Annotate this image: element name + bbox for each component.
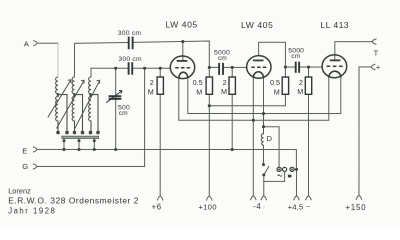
svg-text:+150: +150	[345, 203, 366, 212]
svg-text:2: 2	[150, 78, 154, 87]
terminal G chevron	[33, 164, 37, 169]
wire A to coil1	[37, 42, 58, 44]
svg-text:E: E	[22, 146, 27, 155]
terminal fork +6	[157, 196, 162, 200]
svg-text:+: +	[376, 63, 380, 72]
wire grid1: coil3 top, cap C2, to tube1 grid	[91, 68, 170, 77]
node E bus drop2	[77, 148, 80, 151]
node E bus varcap	[114, 148, 117, 151]
svg-text:M: M	[221, 87, 227, 96]
svg-text:E.R.W.O. 328 Ordensmeister 2: E.R.W.O. 328 Ordensmeister 2	[8, 196, 139, 206]
wire E bus	[37, 149, 296, 169]
svg-text:M: M	[297, 87, 303, 96]
wire R3 leads	[231, 67, 233, 149]
node H3 heater	[252, 119, 255, 122]
coil L3 return lead	[91, 95, 98, 134]
wire variable capacitor leads	[115, 68, 117, 149]
wire selector socket2 down and left to pivot line	[264, 172, 285, 182]
wire tube2 anode up over to R4 top	[259, 42, 286, 77]
tube U2 LW405 envelope	[247, 56, 271, 79]
node choke top	[262, 125, 265, 128]
selector battery mark	[288, 175, 292, 178]
wire + output terminal	[359, 67, 371, 195]
wire choke D bottom to switch contact	[262, 145, 264, 163]
variable capacitor arrow	[106, 90, 122, 102]
terminal fork -4 right	[261, 196, 266, 200]
node R3 grid leak	[231, 66, 234, 69]
resistor R3 2M	[229, 77, 235, 94]
terminal A chevron	[34, 41, 38, 46]
svg-text:·: ·	[263, 203, 265, 210]
tube U3 anode plate	[330, 59, 341, 61]
node G tap	[143, 67, 146, 70]
selector socket 3 (plugged)	[290, 167, 294, 171]
tube U3 filament	[329, 71, 341, 77]
svg-text:-4: -4	[253, 202, 261, 211]
coil switch bar	[62, 136, 99, 138]
svg-text:cm: cm	[119, 110, 128, 117]
coil L3 grid winding	[75, 77, 100, 134]
capacitor C2 300cm	[129, 62, 133, 75]
terminal fork +100	[207, 196, 212, 200]
tube U1 anode plate	[177, 60, 188, 62]
tube U2 grid dashes	[251, 66, 266, 68]
node switch contact	[262, 163, 265, 166]
wire R5 top lead	[308, 67, 310, 77]
wire E bus corner down to +4.5 terminal	[295, 169, 297, 195]
svg-text:T: T	[374, 48, 379, 57]
svg-text:+100: +100	[199, 202, 217, 211]
wire G line up to grid1	[37, 68, 145, 166]
node bar taps	[62, 139, 65, 142]
wire tube1 left heater to H3 bus to tube3 left heater	[179, 78, 329, 121]
node R2 coupling	[208, 66, 211, 69]
wire tube1 right heater to H2 bus to tube3 right heater	[188, 78, 341, 114]
svg-text:2: 2	[299, 78, 303, 87]
wire R1 bottom to +6 terminal	[159, 94, 161, 196]
terminal fork +4.5 right	[306, 196, 311, 200]
selector socket 1 (plugged)	[277, 167, 281, 171]
wire tube2 left heater down to -4 terminal	[252, 78, 254, 196]
variable capacitor 500cm plates	[106, 90, 122, 102]
wire grid2: R2 node to cap C3 to tube2 grid	[209, 66, 246, 68]
coil L1 antenna winding	[48, 77, 71, 134]
coil L1 arrow	[48, 80, 71, 118]
svg-text:2: 2	[223, 78, 227, 87]
node coil lead dots	[56, 131, 60, 135]
terminal fork +150	[356, 195, 361, 199]
terminal fork + output	[371, 64, 375, 69]
selector AC tilde mark	[278, 175, 282, 176]
wire choke branch to selector socket 1	[263, 127, 279, 167]
svg-text:300 cm: 300 cm	[118, 56, 142, 63]
svg-text:cm: cm	[291, 53, 300, 60]
selector socket 2 (open)	[282, 167, 286, 171]
coil L2 arrow	[56, 80, 84, 128]
wire grid3: R4 node, cap C4, to tube3 grid	[285, 66, 322, 68]
tube U2 anode plate	[253, 59, 264, 61]
svg-text:300 cm: 300 cm	[118, 30, 142, 37]
svg-text:G: G	[22, 162, 28, 171]
svg-text:0.5: 0.5	[270, 78, 280, 87]
wire tube3 anode to T terminal	[335, 42, 372, 61]
svg-text:M: M	[148, 87, 154, 96]
node switch pivot	[262, 173, 265, 176]
capacitor C4 5000cm	[296, 62, 299, 73]
tube U2 filament	[253, 72, 263, 78]
node tube1 anode	[181, 40, 184, 43]
svg-text:cm: cm	[218, 55, 227, 62]
wire R2 bottom to +100 terminal	[208, 94, 210, 196]
tube U1 filament	[179, 72, 188, 78]
terminal fork -4 left	[251, 196, 256, 200]
wire tube1 anode lead	[182, 42, 184, 61]
node coil section junctions	[57, 93, 60, 96]
node R5 grid leak	[307, 65, 310, 68]
node H2 choke	[262, 112, 265, 115]
svg-text:LW 405: LW 405	[165, 19, 197, 29]
node H1 +100	[208, 104, 211, 107]
tube U1 grid dashes	[175, 67, 190, 69]
svg-text:+6: +6	[152, 202, 162, 211]
node E bus drop3	[93, 148, 96, 151]
svg-text:Jahr 1928: Jahr 1928	[8, 207, 56, 216]
wire R5 bottom to +4.5 right terminal	[307, 94, 309, 195]
svg-text:–: –	[306, 203, 310, 210]
svg-text:+4,5: +4,5	[288, 203, 304, 212]
svg-text:D: D	[266, 134, 272, 143]
wire switch pivot down to -4 right terminal	[263, 175, 265, 196]
terminal fork T	[372, 39, 376, 44]
node E bus R3	[231, 148, 234, 151]
coil L3 arrow	[75, 80, 100, 128]
tube U3 LL413 envelope	[322, 55, 347, 78]
switch arm	[264, 166, 269, 175]
node R4 coupling	[284, 65, 287, 68]
terminal E chevron	[33, 147, 37, 152]
svg-text:0.5: 0.5	[193, 78, 203, 87]
svg-text:Lorenz: Lorenz	[8, 186, 31, 195]
wire coil2 top to cap C1 and R2 corner	[75, 41, 210, 77]
resistor R4 0.5M	[282, 77, 288, 94]
svg-text:LW 405: LW 405	[241, 20, 273, 30]
wire coil bar drops to E bus	[64, 139, 94, 150]
resistor R2 0.5M	[206, 77, 212, 94]
node selector junction	[295, 168, 298, 171]
svg-text:A: A	[24, 39, 30, 48]
capacitor C3 5000cm	[219, 63, 223, 75]
tube U1 LW405 envelope	[170, 56, 194, 79]
wire H1 bus +100 to R4 bottom	[209, 94, 285, 106]
capacitor C1 300cm	[129, 37, 133, 50]
resistor R5 2M	[305, 77, 311, 94]
tube U3 grid dashes	[327, 65, 343, 67]
svg-text:LL 413: LL 413	[320, 20, 349, 30]
node R1 top	[159, 67, 162, 70]
coil L1 return lead	[58, 95, 67, 134]
node varcap top	[114, 67, 117, 70]
svg-text:M: M	[274, 88, 280, 97]
coil L2 primary winding	[56, 77, 84, 134]
wire selector socket3 to junction	[294, 168, 296, 170]
wire R1 top lead	[159, 68, 161, 77]
svg-text:M: M	[196, 87, 202, 96]
terminal fork +4.5 left	[294, 196, 299, 200]
resistor R1 2M	[157, 77, 163, 94]
wire tube2 right heater down to choke D	[262, 78, 264, 134]
choke D winding	[261, 134, 263, 146]
wire faint drop A to coil1 top	[57, 43, 59, 77]
coil L2 return lead	[74, 95, 82, 134]
node E bus drop1	[62, 148, 65, 151]
